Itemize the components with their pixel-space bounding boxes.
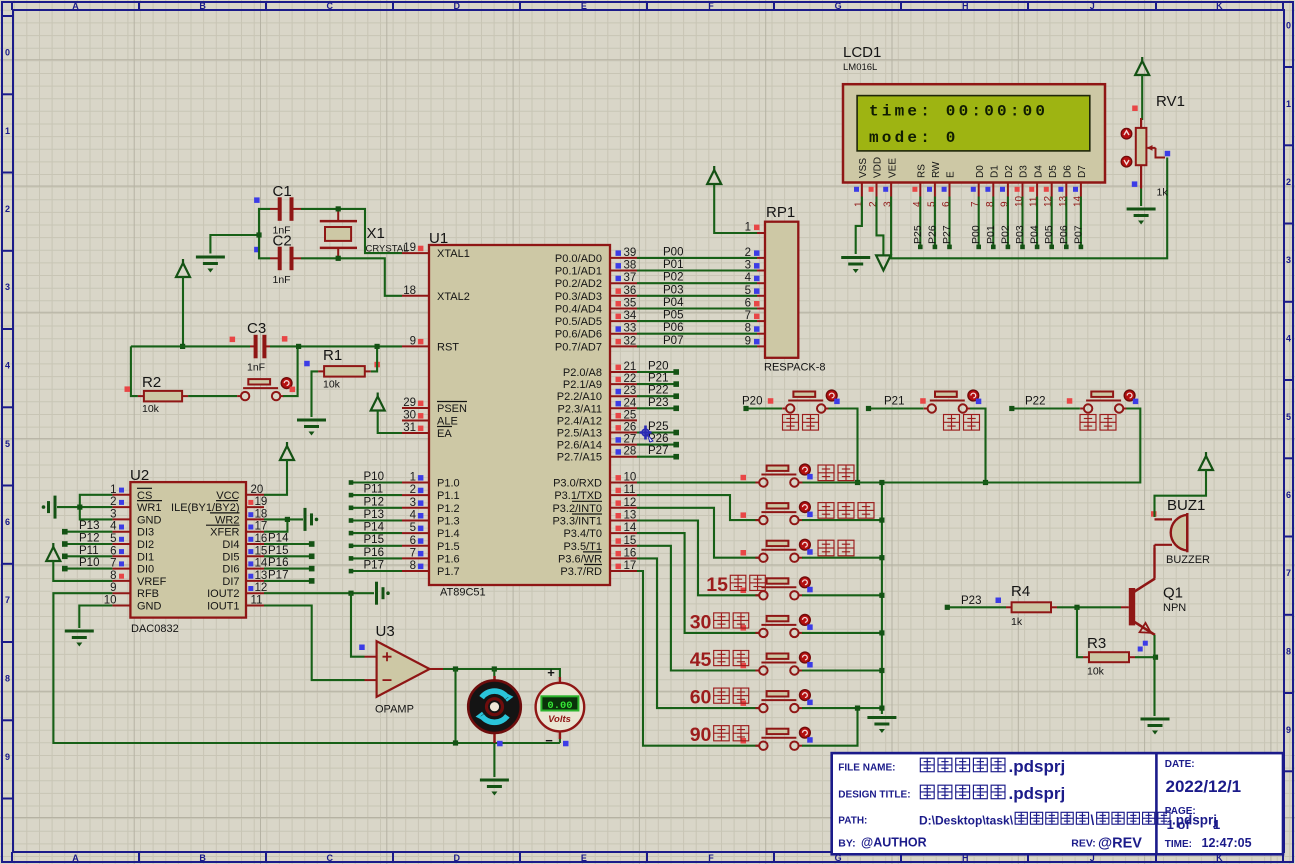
pin U2.2 WR1: [112, 506, 130, 508]
pin P3.7/RD (17): [610, 570, 637, 572]
svg-text:P0.2/AD2: P0.2/AD2: [555, 278, 602, 290]
svg-text:4: 4: [5, 361, 10, 371]
wire LCD P26: [934, 197, 936, 247]
node LCD P04: [1035, 245, 1040, 250]
svg-text:P05: P05: [663, 310, 683, 322]
node LCD P27: [947, 245, 952, 250]
svg-text:7: 7: [5, 595, 10, 605]
pin P1.5 (6): [402, 545, 429, 547]
svg-text:REV:: REV:: [1071, 838, 1096, 850]
svg-text:P16: P16: [268, 557, 288, 569]
pin RP1.3: [757, 270, 765, 272]
svg-text:P0.0/AD0: P0.0/AD0: [555, 253, 602, 265]
svg-text:C2: C2: [273, 233, 292, 250]
wire power to EA: [378, 411, 402, 434]
svg-text:P03: P03: [663, 284, 683, 296]
junction output/feedback: [453, 666, 458, 671]
svg-text:P15: P15: [364, 534, 384, 546]
svg-text:P10: P10: [79, 557, 99, 569]
svg-text:P22: P22: [1025, 396, 1045, 408]
wire P22 net: [637, 395, 676, 397]
svg-text:AT89C51: AT89C51: [440, 587, 486, 599]
svg-text:12: 12: [624, 497, 637, 509]
svg-text:5: 5: [410, 522, 416, 534]
pin P0.1/AD1 (38): [610, 270, 637, 272]
node P23: [673, 406, 679, 412]
node P11: [62, 554, 68, 560]
svg-text:D7: D7: [1077, 165, 1088, 178]
pin U2.14 DI6: [246, 568, 264, 570]
wire P10 to U2: [65, 568, 113, 570]
node LCD P03: [1020, 245, 1025, 250]
svg-text:E: E: [581, 853, 587, 863]
pin U2.1 CS: [112, 494, 130, 496]
svg-text:RW: RW: [931, 161, 942, 178]
svg-text:19: 19: [255, 496, 268, 508]
pin U2.17 XFER: [246, 531, 264, 533]
wire P10 net: [351, 481, 402, 483]
pin P3.6/WR (16): [610, 557, 637, 559]
pin U2.15 DI5: [246, 555, 264, 557]
svg-text:F: F: [708, 853, 714, 863]
svg-text:30: 30: [403, 410, 416, 422]
svg-text:10: 10: [624, 472, 637, 484]
push button 60 row: [755, 691, 802, 712]
capacitor C1: [254, 183, 301, 237]
node LCD P05: [1049, 245, 1054, 250]
op-amp U3 OPAMP: [359, 623, 443, 716]
node P27: [673, 454, 679, 460]
svg-text:DATE:: DATE:: [1165, 759, 1195, 770]
svg-text:Q1: Q1: [1163, 585, 1183, 602]
svg-text:DI7: DI7: [222, 576, 239, 588]
svg-text:U2: U2: [130, 467, 149, 484]
svg-text:P1.0: P1.0: [437, 478, 460, 490]
push button weak row: [755, 466, 802, 487]
junction trunk row 3: [879, 593, 884, 598]
wire RP1 pin1 to power: [714, 184, 757, 233]
wire P11 to U2: [65, 555, 113, 557]
wire U2 GND pin10: [79, 606, 112, 629]
pin RP1.1: [757, 232, 765, 234]
svg-text:IOUT1: IOUT1: [207, 601, 239, 613]
svg-text:B: B: [199, 1, 206, 11]
junction trunk row 6: [879, 706, 884, 711]
node LCD P02: [1006, 245, 1011, 250]
wire LCD VEE to RV1 wiper: [891, 158, 1167, 259]
svg-text:ALE: ALE: [437, 416, 458, 428]
node P20: [743, 406, 748, 411]
pin U2.5 DI2: [112, 543, 130, 545]
svg-text:mode: 0: mode: 0: [869, 129, 959, 147]
ground (LCD VSS): [841, 258, 870, 274]
svg-text:90: 90: [690, 724, 712, 746]
pin P0.5/AD5 (34): [610, 320, 637, 322]
svg-text:P23: P23: [961, 595, 981, 607]
svg-text:P1.5: P1.5: [437, 541, 460, 553]
wire to crystal ground: [210, 235, 259, 254]
wire P3.6 to button row: [637, 558, 759, 708]
svg-text:time: 00:00:00: time: 00:00:00: [869, 103, 1048, 121]
junction motor top: [492, 666, 497, 671]
junction bottom rail: [453, 740, 458, 745]
pin P0.3/AD3 (36): [610, 295, 637, 297]
junction IOUT2: [348, 591, 353, 596]
push button 30 row: [755, 616, 802, 637]
svg-text:11: 11: [251, 595, 263, 607]
pin P0.4/AD4 (35): [610, 308, 637, 310]
junction base/R3: [1074, 605, 1079, 610]
svg-text:P10: P10: [364, 471, 384, 483]
svg-text:J: J: [1090, 1, 1095, 11]
ground (IOUT2 rotated): [377, 582, 390, 605]
wire P00 net: [637, 257, 757, 259]
svg-text:1: 1: [745, 222, 751, 234]
pin RP1.9: [757, 345, 765, 347]
wire LCD P06: [1065, 197, 1067, 247]
wire P13 to U2: [65, 531, 113, 533]
svg-text:D4: D4: [1033, 165, 1044, 178]
svg-text:1nF: 1nF: [247, 362, 265, 374]
node P22: [1009, 406, 1014, 411]
wire C2 to X1 to XTAL2: [301, 258, 402, 296]
wire motor top: [493, 669, 495, 676]
junction X1 top: [336, 206, 341, 211]
wire LCD P04: [1036, 197, 1038, 247]
junction left rail: [256, 232, 261, 237]
ground (crystal caps): [196, 257, 225, 273]
wire power to RST row: [182, 277, 184, 346]
wire P03 net: [637, 295, 757, 297]
buzzer BUZ1: [1151, 497, 1210, 566]
node P21: [866, 406, 871, 411]
svg-text:DI6: DI6: [222, 564, 239, 576]
svg-text:P17: P17: [268, 569, 288, 581]
pin RP1.6: [757, 308, 765, 310]
pin P3.1/TXD (11): [610, 494, 637, 496]
svg-text:27: 27: [624, 434, 637, 446]
svg-text:PATH:: PATH:: [838, 816, 867, 827]
wire P3.2 to button row: [637, 508, 759, 558]
svg-text:5: 5: [1286, 412, 1291, 422]
pin U2.19 ILE(BY1/BY2): [246, 506, 264, 508]
wire power to buzzer: [1155, 470, 1207, 517]
svg-text:.pdsprj: .pdsprj: [1009, 757, 1066, 776]
wire LCD P27: [948, 197, 950, 247]
wire P16 net: [351, 557, 402, 559]
wire P06 net: [637, 333, 757, 335]
pin U2.18 WR2: [246, 518, 264, 520]
svg-text:P01: P01: [663, 259, 683, 271]
svg-text:VDD: VDD: [873, 157, 884, 178]
wire motor bottom to ground: [493, 743, 495, 777]
svg-text:R3: R3: [1087, 635, 1106, 652]
svg-text:P3.0/RXD: P3.0/RXD: [553, 478, 602, 490]
svg-text:P1.6: P1.6: [437, 553, 460, 565]
wire CS/GND tie: [80, 495, 113, 520]
IC U2 DAC0832: [130, 467, 246, 635]
svg-text:P17: P17: [364, 560, 384, 572]
svg-text:E: E: [946, 171, 957, 178]
svg-text:5: 5: [745, 285, 751, 297]
junction RST/R1: [375, 344, 380, 349]
svg-text:6: 6: [410, 535, 416, 547]
junction emitter/R3: [1153, 655, 1158, 660]
voltmeter: [536, 665, 585, 748]
resistor pack RP1 RESPACK-8: [764, 204, 826, 374]
junction WR2: [285, 517, 290, 522]
wire reset button to RST row: [283, 346, 298, 396]
svg-text:P07: P07: [663, 335, 683, 347]
svg-text:P0.3/AD3: P0.3/AD3: [555, 291, 602, 303]
svg-text:BY:: BY:: [838, 838, 855, 850]
svg-text:P00: P00: [970, 225, 982, 244]
wire R3 to emitter: [1135, 656, 1156, 658]
svg-text:P2.0/A8: P2.0/A8: [563, 367, 602, 379]
svg-text:2: 2: [410, 484, 416, 496]
wire P3.1 to button row: [637, 495, 759, 520]
svg-text:1: 1: [1213, 817, 1220, 832]
svg-text:RESPACK-8: RESPACK-8: [764, 362, 826, 374]
svg-text:RFB: RFB: [137, 588, 159, 600]
pin P2.2/A10 (23): [610, 395, 637, 397]
junction trunk top: [879, 480, 884, 485]
svg-text:P3.2/INT0: P3.2/INT0: [552, 503, 602, 515]
svg-text:25: 25: [624, 409, 637, 421]
svg-text:2022/12/1: 2022/12/1: [1166, 777, 1242, 796]
svg-text:DESIGN TITLE:: DESIGN TITLE:: [838, 789, 910, 800]
svg-text:C1: C1: [273, 183, 292, 200]
wire P04 net: [637, 307, 757, 309]
svg-text:1nF: 1nF: [273, 274, 291, 286]
pin P3.2/INT0 (12): [610, 507, 637, 509]
svg-text:U3: U3: [376, 623, 395, 640]
svg-text:+: +: [547, 665, 555, 680]
pin P1.7 (8): [402, 570, 429, 572]
svg-text:P13: P13: [79, 520, 99, 532]
wire P13 net: [351, 519, 402, 521]
pin P2.0/A8 (21): [610, 371, 637, 373]
node LCD P00: [976, 245, 981, 250]
svg-text:P0.7/AD7: P0.7/AD7: [555, 341, 602, 353]
wire R1 left to ground: [312, 371, 319, 417]
svg-text:P2.3/A11: P2.3/A11: [558, 403, 602, 415]
svg-text:P13: P13: [364, 509, 384, 521]
resistor R3 10k: [1083, 635, 1135, 678]
pin P3.4/T0 (14): [610, 532, 637, 534]
pin P2.6/A14 (27): [610, 444, 637, 446]
pin U2.3 GND: [112, 518, 130, 520]
svg-text:.pdsprj: .pdsprj: [1009, 784, 1066, 803]
svg-text:XTAL1: XTAL1: [437, 248, 470, 260]
push button KaiShi (start) P20: [782, 392, 829, 413]
svg-text:P26: P26: [926, 225, 938, 244]
wire P12 to U2: [65, 543, 113, 545]
junction trunk row 5: [879, 668, 884, 673]
svg-text:@AUTHOR: @AUTHOR: [861, 836, 927, 850]
svg-text:24: 24: [624, 397, 637, 409]
svg-text:3: 3: [1286, 255, 1291, 265]
svg-text:28: 28: [624, 446, 637, 458]
wire P23 net to R4: [947, 606, 1006, 608]
pin U2.8 VREF: [112, 580, 130, 582]
wire IOUT1 to opamp: [264, 606, 365, 681]
svg-text:P1.3: P1.3: [437, 516, 460, 528]
svg-text:IOUT2: IOUT2: [207, 588, 239, 600]
node P12: [349, 506, 354, 511]
capacitor C2: [254, 233, 301, 287]
svg-text:H: H: [962, 1, 969, 11]
wire R4 to Q1 base: [1057, 606, 1121, 608]
wire P20 net: [746, 407, 782, 409]
pin P1.0 (1): [402, 482, 429, 484]
svg-text:11: 11: [624, 484, 636, 496]
resistor R4 1k: [1006, 583, 1057, 628]
wire power to VREF: [53, 561, 112, 581]
svg-text:P2.6/A14: P2.6/A14: [557, 440, 602, 452]
svg-text:F: F: [708, 1, 714, 11]
svg-text:26: 26: [624, 422, 637, 434]
svg-text:G: G: [835, 1, 842, 11]
wire P02 net: [637, 282, 757, 284]
wire RV1 bottom to ground: [1140, 189, 1142, 207]
pin XTAL2 (18): [402, 295, 429, 297]
svg-text:E: E: [581, 1, 587, 11]
svg-text:1k: 1k: [1157, 187, 1169, 199]
svg-text:1: 1: [5, 126, 10, 136]
pin RST (9): [402, 345, 429, 347]
pin U2.7 DI0: [112, 568, 130, 570]
wire C1 to X1 to XTAL1: [301, 209, 402, 253]
wire LCD VDD to power: [877, 197, 884, 256]
pin P0.0/AD0 (39): [610, 257, 637, 259]
svg-text:C3: C3: [247, 320, 266, 337]
wire P20 net: [637, 371, 676, 373]
pin RP1.8: [757, 333, 765, 335]
svg-text:2: 2: [745, 247, 751, 259]
svg-text:U1: U1: [429, 230, 448, 247]
node P13: [349, 518, 354, 523]
svg-text:P1.2: P1.2: [437, 503, 460, 515]
wire IOUT2 to ground and opamp: [264, 592, 374, 594]
svg-text:R4: R4: [1011, 583, 1030, 600]
svg-text:13: 13: [624, 510, 637, 522]
svg-text:RST: RST: [437, 341, 459, 353]
svg-text:WR1: WR1: [137, 502, 161, 514]
svg-text:P2.7/A15: P2.7/A15: [557, 452, 602, 464]
wire P3.4 to button row: [637, 533, 759, 633]
svg-text:15: 15: [624, 535, 637, 547]
svg-text:15: 15: [706, 574, 728, 596]
wire WR2/XFER tie to ground: [264, 518, 303, 520]
node P21: [673, 381, 679, 387]
pin P2.1/A9 (22): [610, 383, 637, 385]
node P26: [673, 442, 679, 448]
push button 15 row: [755, 578, 802, 599]
wire button 15 right to trunk: [802, 594, 882, 596]
svg-text:30: 30: [690, 611, 712, 633]
svg-text:DI1: DI1: [137, 551, 154, 563]
pin U2.10 GND: [112, 605, 130, 607]
svg-text:VREF: VREF: [137, 576, 167, 588]
svg-text:FILE NAME:: FILE NAME:: [838, 763, 895, 774]
power +5V arrow (RST): [176, 259, 190, 277]
svg-text:DI3: DI3: [137, 527, 154, 539]
ground (R1): [297, 420, 326, 436]
node P10: [62, 566, 68, 572]
svg-text:34: 34: [624, 310, 637, 322]
pin U2.12 IOUT2: [246, 592, 264, 594]
power +5V arrow (EA): [371, 393, 385, 411]
pin U2.11 IOUT1: [246, 605, 264, 607]
pin RP1.4: [757, 282, 765, 284]
svg-text:R2: R2: [142, 374, 161, 391]
svg-text:7: 7: [410, 547, 416, 559]
wire P21 net: [869, 407, 924, 409]
svg-text:23: 23: [624, 385, 637, 397]
svg-text:DI4: DI4: [222, 539, 239, 551]
svg-text:P12: P12: [364, 496, 384, 508]
svg-text:DI0: DI0: [137, 564, 154, 576]
svg-text:LCD1: LCD1: [843, 44, 881, 61]
node P15: [349, 544, 354, 549]
svg-text:PSEN: PSEN: [437, 403, 467, 415]
svg-text:10k: 10k: [323, 379, 341, 391]
svg-text:6: 6: [745, 298, 751, 310]
svg-text:PAGE:: PAGE:: [1165, 806, 1196, 817]
wire P15 net: [351, 545, 402, 547]
svg-text:TIME:: TIME:: [1165, 839, 1192, 850]
svg-text:8: 8: [745, 323, 751, 335]
svg-text:2: 2: [5, 204, 10, 214]
svg-text:22: 22: [624, 373, 637, 385]
node P17: [309, 578, 315, 584]
svg-text:P21: P21: [884, 396, 904, 408]
svg-text:P20: P20: [742, 396, 762, 408]
junction 90min/60min: [855, 706, 860, 711]
wire P01 net: [637, 269, 757, 271]
node LCD P07: [1079, 245, 1084, 250]
wire P15 from U2: [264, 555, 312, 557]
svg-text:A: A: [72, 1, 79, 11]
svg-text:P3.4/T0: P3.4/T0: [563, 528, 602, 540]
svg-text:P3.6/WR: P3.6/WR: [558, 553, 602, 565]
pin U2.13 DI7: [246, 580, 264, 582]
svg-text:P02: P02: [999, 225, 1011, 244]
wire P21 net: [637, 383, 676, 385]
wire P27 net: [637, 456, 676, 458]
svg-text:P0.5/AD5: P0.5/AD5: [555, 316, 602, 328]
IC U1 AT89C51: [429, 230, 610, 599]
svg-text:P11: P11: [79, 545, 99, 557]
svg-text:P1.7: P1.7: [437, 566, 460, 578]
wire P17 net: [351, 570, 402, 572]
svg-text:0: 0: [1286, 21, 1291, 31]
svg-text:P12: P12: [79, 533, 99, 545]
title block: [832, 753, 1283, 854]
wire RFB feedback loop: [53, 593, 560, 743]
svg-text:P06: P06: [1058, 225, 1070, 244]
pin P1.2 (3): [402, 507, 429, 509]
svg-text:35: 35: [624, 298, 637, 310]
pin P1.3 (4): [402, 520, 429, 522]
svg-text:DI5: DI5: [222, 551, 239, 563]
pin P2.7/A15 (28): [610, 456, 637, 458]
pin P1.6 (7): [402, 557, 429, 559]
wire LCD P25: [919, 197, 921, 247]
node P15: [309, 554, 315, 560]
pin PSEN (29): [402, 407, 429, 409]
